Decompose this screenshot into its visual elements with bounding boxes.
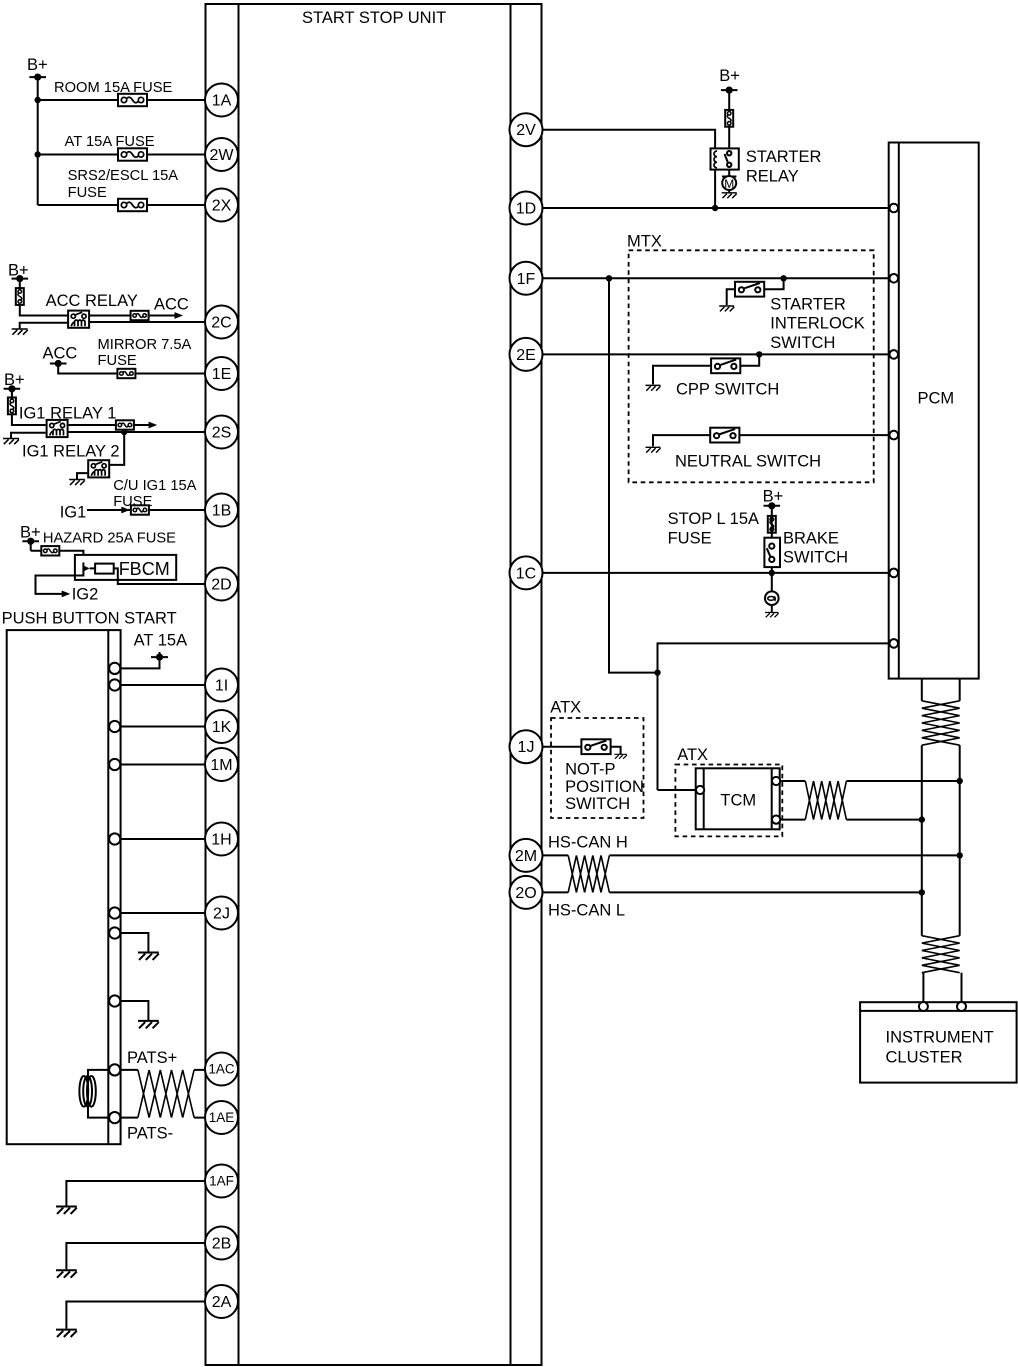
svg-text:AT 15A: AT 15A	[134, 631, 188, 649]
MTX dashed group box	[627, 233, 874, 483]
wire: push button pin to terminal 1H	[120, 838, 205, 840]
svg-text:ATX: ATX	[677, 746, 708, 764]
terminal 2D	[205, 568, 238, 601]
svg-text:NOT-P: NOT-P	[565, 760, 615, 778]
svg-text:2S: 2S	[212, 425, 232, 442]
wire: TCM HS-CAN H to bus	[780, 780, 960, 782]
wire: CAN bus right line	[959, 745, 961, 936]
svg-text:SRS2/ESCL 15A: SRS2/ESCL 15A	[68, 168, 179, 184]
wire: CPP switch jog	[653, 354, 759, 384]
pin circle PCM 2E	[890, 350, 899, 359]
B+ supply node (IG1 relays)	[4, 371, 25, 392]
coil (PATS antenna)	[79, 1076, 95, 1107]
twisted pair (TCM CAN)	[805, 781, 846, 820]
svg-text:FUSE: FUSE	[668, 530, 712, 548]
ground (CPP switch)	[646, 385, 661, 390]
svg-text:IG2: IG2	[72, 586, 99, 604]
fuse (starter relay feed)	[725, 110, 733, 127]
wire: FBCM base to IG2	[36, 575, 84, 594]
svg-text:FUSE: FUSE	[98, 353, 137, 369]
wire: terminal 2V to starter relay coil	[543, 130, 716, 149]
wire: 2S junction down to IG1 relay 2	[110, 432, 124, 465]
ground (IG1 relay 2 coil)	[69, 480, 85, 486]
terminal 2X	[205, 189, 238, 222]
twisted pair (PATS)	[138, 1070, 194, 1118]
wire: IG1 to terminal 1B	[87, 509, 205, 511]
terminal 2J	[205, 897, 238, 930]
svg-text:1AE: 1AE	[209, 1110, 235, 1125]
wire: 1C junction down to stop lamp	[771, 573, 773, 592]
fuse (IG1 relay feed)	[8, 398, 16, 415]
node AT 15A supply	[134, 631, 188, 662]
svg-text:INTERLOCK: INTERLOCK	[770, 315, 864, 333]
svg-text:CLUSTER: CLUSTER	[886, 1049, 963, 1067]
switch NEUTRAL SWITCH	[675, 428, 821, 471]
terminal 2O	[510, 876, 543, 909]
fuse MIRROR 7.5A FUSE	[98, 337, 192, 378]
wire: starter relay switch to motor	[728, 170, 730, 175]
wire: ACC relay coil to terminal 2C	[90, 321, 205, 323]
terminal 1A	[205, 84, 238, 117]
INSTRUMENT CLUSTER module box	[860, 1002, 1017, 1082]
svg-text:SWITCH: SWITCH	[770, 334, 835, 352]
fuse STOP L 15A FUSE	[668, 510, 776, 548]
svg-text:HAZARD 25A FUSE: HAZARD 25A FUSE	[43, 531, 176, 547]
svg-text:2C: 2C	[211, 315, 231, 332]
wire: PCM CAN stub right	[959, 679, 961, 701]
svg-text:1B: 1B	[212, 503, 232, 520]
wire: terminal 1D to PCM	[543, 207, 890, 209]
svg-text:FBCM: FBCM	[119, 559, 170, 579]
svg-text:PCM: PCM	[918, 390, 955, 408]
wire: FBCM output to terminal 2D	[114, 568, 205, 584]
svg-text:1M: 1M	[210, 757, 232, 774]
junction (TCM L on left bus line)	[919, 816, 925, 822]
wire: ACC relay coil to ground	[20, 323, 68, 329]
switch NOT-P POSITION SWITCH	[565, 739, 644, 813]
wire: TCM HS-CAN L to bus	[780, 819, 922, 821]
svg-text:RELAY: RELAY	[746, 168, 799, 186]
arrow (IG1 feed)	[121, 507, 130, 514]
svg-text:FUSE: FUSE	[68, 185, 107, 201]
lamp (stop lamp)	[765, 591, 779, 605]
svg-text:2V: 2V	[516, 122, 536, 139]
B+ supply node (top left)	[27, 56, 48, 81]
ground (ACC relay coil)	[12, 329, 28, 335]
wire: push button pin to terminal 2J	[120, 912, 205, 914]
wire: 1F junction down and over to TCM feed line	[609, 278, 658, 672]
fuse (ACC output)	[131, 311, 149, 320]
fuse HAZARD 25A FUSE	[41, 531, 176, 556]
wire: B+ bus down to 2X row	[37, 77, 39, 205]
svg-text:2E: 2E	[516, 347, 536, 364]
pin circle PCM TCM feed	[890, 639, 899, 648]
wire: stop lamp to ground	[771, 605, 773, 613]
terminal 1B	[205, 494, 238, 527]
terminal 2V	[510, 113, 543, 146]
wire: terminal 1C to PCM	[543, 572, 890, 574]
switch STARTER INTERLOCK SWITCH	[735, 282, 865, 352]
pin circle (1M row)	[109, 759, 120, 770]
junction (2M on right bus line)	[957, 852, 963, 858]
switch CPP SWITCH	[676, 358, 779, 398]
wire: B+ to terminal 2X	[38, 204, 205, 206]
svg-text:IG1: IG1	[60, 504, 87, 522]
wire: B+ down to starter relay switch	[728, 90, 730, 152]
junction on 2S wire	[121, 429, 127, 435]
B+ supply node (starter relay)	[719, 67, 740, 94]
svg-text:HS-CAN H: HS-CAN H	[548, 834, 628, 852]
svg-text:INSTRUMENT: INSTRUMENT	[886, 1029, 994, 1047]
wire: push button pin to ground 2	[120, 1001, 148, 1021]
node ACC (mirror fuse feed)	[43, 345, 78, 368]
svg-text:1H: 1H	[211, 832, 231, 849]
terminal 2M	[510, 839, 543, 872]
junction on B+ bus at 2W row	[35, 151, 41, 157]
svg-text:ATX: ATX	[550, 699, 581, 717]
twisted pair (instrument cluster CAN, vertical)	[922, 936, 960, 973]
terminal 1D	[510, 192, 543, 225]
fuse (ACC relay feed)	[16, 288, 24, 305]
svg-text:STARTER: STARTER	[770, 295, 846, 313]
ATX dashed group box (TCM)	[675, 746, 782, 836]
pin circle TCM left	[696, 786, 704, 794]
svg-text:1A: 1A	[212, 93, 232, 110]
TCM module box	[696, 768, 780, 829]
B+ supply node (stop lamp fuse)	[763, 488, 784, 510]
junction on B+ bus at 1A row	[35, 97, 41, 103]
svg-text:B+: B+	[719, 67, 740, 85]
wire: terminal 1J to NOT-P switch	[543, 746, 582, 748]
svg-text:1J: 1J	[518, 739, 535, 756]
ground (2A)	[56, 1330, 77, 1337]
svg-text:HS-CAN L: HS-CAN L	[548, 902, 625, 920]
wire: starter relay coil down to 1D wire	[714, 170, 716, 208]
wire: neutral switch to PCM	[653, 435, 890, 446]
svg-text:1K: 1K	[212, 719, 232, 736]
wire: IG1 relay 1 coil to terminal 2S	[69, 431, 205, 433]
START STOP UNIT connector box	[206, 4, 542, 1365]
wire: terminal 2M (HS-CAN H) to bus	[543, 854, 960, 856]
wire: terminal 2E to PCM	[543, 353, 890, 355]
FBCM module	[75, 555, 176, 580]
wire: push button pin to terminal 1I	[120, 684, 205, 686]
wire: feed line into TCM	[658, 789, 697, 791]
wire: ACC to terminal 1E	[58, 364, 205, 374]
svg-text:IG1 RELAY 2: IG1 RELAY 2	[22, 443, 120, 461]
pin circle (1H row)	[109, 833, 120, 844]
svg-text:SWITCH: SWITCH	[783, 549, 848, 567]
wire: cluster stub right	[961, 973, 963, 1003]
svg-text:CPP SWITCH: CPP SWITCH	[676, 381, 779, 399]
svg-text:1C: 1C	[516, 565, 536, 582]
svg-text:NEUTRAL SWITCH: NEUTRAL SWITCH	[675, 453, 821, 471]
PUSH BUTTON START switch box	[2, 610, 177, 1145]
pin circle (PATS+ row)	[109, 1064, 120, 1075]
twisted pair (HS-CAN)	[568, 855, 609, 892]
wire: B+ down to IG1 relay 1 switch	[12, 389, 46, 425]
ground (push button 2)	[138, 1021, 159, 1028]
wire: push button pin to terminal 1M	[120, 764, 205, 766]
wire: interlock switch jog	[727, 278, 784, 305]
pin circle (1K row)	[109, 721, 120, 732]
svg-text:1AC: 1AC	[208, 1062, 235, 1077]
svg-text:PATS-: PATS-	[127, 1125, 173, 1143]
svg-text:TCM: TCM	[720, 792, 756, 810]
terminal 1M	[205, 748, 238, 781]
svg-text:2O: 2O	[515, 885, 536, 902]
arrow + node IG2	[62, 586, 99, 604]
fuse SRS2/ESCL 15A FUSE	[68, 168, 179, 211]
junction on 1C wire (brake switch)	[769, 570, 775, 576]
terminal 2C	[205, 306, 238, 339]
pin circle cluster left	[919, 1002, 928, 1011]
svg-text:1F: 1F	[517, 271, 536, 288]
wire: brake switch to 1C wire	[771, 567, 773, 573]
motor M (starter)	[722, 176, 736, 191]
ground (NOT-P switch)	[614, 754, 626, 758]
wire: push button pin to ground 1	[120, 933, 148, 953]
fuse C/U IG1 15A FUSE	[113, 478, 196, 515]
svg-text:2D: 2D	[211, 577, 231, 594]
terminal 1E	[205, 357, 238, 390]
terminal 1AF	[205, 1165, 238, 1198]
terminal 1I	[205, 669, 238, 702]
junction on 1D wire (starter relay)	[712, 205, 718, 211]
wire: IG1 relay 2 coil to ground	[77, 473, 87, 479]
terminal 2B	[205, 1227, 238, 1260]
svg-text:ACC: ACC	[154, 296, 189, 314]
arrow (IG1 relay 1 output)	[149, 422, 158, 429]
ground (interlock switch)	[719, 306, 734, 311]
wire: ACC relay switch output to ACC	[90, 315, 176, 317]
svg-text:M: M	[724, 177, 734, 191]
terminal 2S	[205, 416, 238, 449]
fuse ROOM 15A FUSE	[54, 80, 173, 106]
pin circle PCM 1C	[890, 569, 899, 578]
pin circle PCM 1F	[890, 274, 899, 283]
svg-text:SWITCH: SWITCH	[565, 795, 630, 813]
relay ACC RELAY	[46, 292, 138, 328]
pin circle (1I row)	[109, 679, 120, 690]
transistor (FBCM driver)	[83, 563, 113, 575]
pin circle PCM 1D	[890, 204, 899, 213]
ATX dashed group box (NOT-P position switch)	[550, 699, 643, 819]
wire: PCM CAN stub left	[921, 679, 923, 701]
node IG1	[60, 504, 87, 522]
wire: IG1 relay 1 coil to ground	[11, 433, 46, 439]
ground (push button 1)	[138, 953, 159, 960]
svg-text:START STOP UNIT: START STOP UNIT	[302, 9, 446, 27]
junction (1F branch joins TCM feed)	[654, 669, 660, 675]
pin circle cluster right	[957, 1002, 966, 1011]
B+ supply node (ACC relay)	[8, 262, 29, 283]
svg-text:2W: 2W	[210, 147, 235, 164]
svg-text:B+: B+	[27, 56, 48, 74]
twisted pair (PCM CAN, vertical)	[922, 701, 960, 745]
switch BRAKE SWITCH	[764, 530, 848, 568]
wire: B+ to terminal 2W	[38, 154, 205, 156]
wire: B+ to terminal 1A	[38, 99, 205, 101]
relay IG1 RELAY 2	[22, 443, 120, 478]
terminal 1J	[510, 730, 543, 763]
svg-text:POSITION: POSITION	[565, 778, 644, 796]
ground (neutral switch)	[646, 447, 661, 452]
svg-text:2J: 2J	[213, 906, 230, 923]
wire: hazard fuse to FBCM transistor	[31, 541, 84, 563]
junction on 1F wire (interlock switch)	[780, 275, 786, 281]
fuse AT 15A FUSE	[65, 134, 155, 161]
ground (2B)	[56, 1270, 77, 1277]
svg-text:PUSH BUTTON START: PUSH BUTTON START	[2, 610, 177, 628]
svg-text:IG1 RELAY 1: IG1 RELAY 1	[19, 405, 117, 423]
wire: terminal 2A to ground	[66, 1302, 205, 1329]
svg-text:ACC: ACC	[43, 345, 78, 363]
svg-text:STOP L 15A: STOP L 15A	[668, 510, 759, 528]
wire: terminal 1AF to ground	[66, 1181, 205, 1206]
junction on 1F wire (TCM branch)	[606, 275, 612, 281]
terminal 1AE	[205, 1101, 238, 1134]
B+ supply node (hazard)	[20, 524, 41, 545]
wire: push button pin to terminal 1K	[120, 726, 205, 728]
wire PATS- : pin to terminal 1AE	[120, 1117, 205, 1119]
node ACC (arrow)	[154, 296, 189, 319]
pin circle TCM right lower	[772, 816, 780, 824]
ground (stop lamp)	[765, 613, 779, 618]
relay STARTER RELAY	[711, 148, 822, 186]
terminal 2W	[205, 138, 238, 171]
wire: cluster stub left	[922, 973, 924, 1003]
svg-text:1AF: 1AF	[209, 1174, 234, 1189]
svg-text:1I: 1I	[215, 678, 228, 695]
svg-text:MTX: MTX	[627, 233, 662, 251]
ground (1AF)	[56, 1207, 77, 1214]
wire: terminal 1F to PCM	[543, 277, 890, 279]
wire PATS+ : pin to terminal 1AC	[120, 1069, 205, 1071]
svg-text:AT 15A FUSE: AT 15A FUSE	[65, 134, 155, 150]
terminal 1H	[205, 823, 238, 856]
svg-text:ACC RELAY: ACC RELAY	[46, 292, 138, 310]
wire: PATS coil loop	[88, 1070, 110, 1118]
junction on 2E wire (CPP switch)	[756, 351, 762, 357]
wire: terminal 2O (HS-CAN L) to bus	[543, 891, 922, 893]
svg-text:2M: 2M	[515, 848, 537, 865]
ground (IG1 relay 1 coil)	[3, 439, 19, 445]
pin circle TCM right upper	[772, 777, 780, 785]
svg-text:2A: 2A	[212, 1294, 232, 1311]
svg-text:1E: 1E	[212, 366, 232, 383]
wire: B+ down to ACC relay switch	[20, 279, 68, 316]
wire: IG1 relay 1 switch output arrow	[69, 424, 150, 426]
svg-text:STARTER: STARTER	[746, 148, 822, 166]
terminal 1K	[205, 710, 238, 743]
pin circle PCM neutral switch	[890, 431, 899, 440]
pin circle (PATS- row)	[109, 1112, 120, 1123]
svg-text:2X: 2X	[212, 198, 232, 215]
fuse (IG1 relay 1 output)	[116, 420, 134, 429]
svg-text:MIRROR 7.5A: MIRROR 7.5A	[98, 337, 192, 353]
svg-text:FUSE: FUSE	[113, 494, 152, 510]
terminal 2E	[510, 338, 543, 371]
svg-text:2B: 2B	[212, 1236, 232, 1253]
svg-text:BRAKE: BRAKE	[783, 530, 839, 548]
junction (2O on left bus line)	[919, 889, 925, 895]
PCM module box	[889, 143, 979, 679]
wire: terminal 2B to ground	[66, 1243, 205, 1269]
svg-text:PATS+: PATS+	[127, 1049, 177, 1067]
relay IG1 RELAY 1	[19, 405, 117, 438]
terminal 2A	[205, 1285, 238, 1318]
wire: TCM feed vertical line	[658, 643, 890, 790]
terminal 1AC	[205, 1053, 238, 1086]
pin circle (2J row)	[109, 907, 120, 918]
terminal 1F	[510, 262, 543, 295]
svg-text:C/U IG1 15A: C/U IG1 15A	[113, 478, 196, 494]
junction (TCM H on right bus line)	[957, 778, 963, 784]
pin circle (AT15A row)	[109, 663, 120, 674]
pin circle (ground 2 row)	[109, 995, 120, 1006]
pin circle (ground 1 row)	[109, 927, 120, 938]
terminal 1C	[510, 556, 543, 589]
wire: AT 15A to push button pin	[120, 657, 159, 668]
svg-text:1D: 1D	[516, 201, 536, 218]
wire: NOT-P switch to ground	[611, 747, 621, 755]
wire: CAN bus left line	[921, 745, 923, 936]
wire: B+ through fuse to brake switch	[771, 506, 773, 538]
ground (starter motor)	[722, 190, 737, 198]
svg-text:ROOM 15A FUSE: ROOM 15A FUSE	[54, 80, 173, 96]
